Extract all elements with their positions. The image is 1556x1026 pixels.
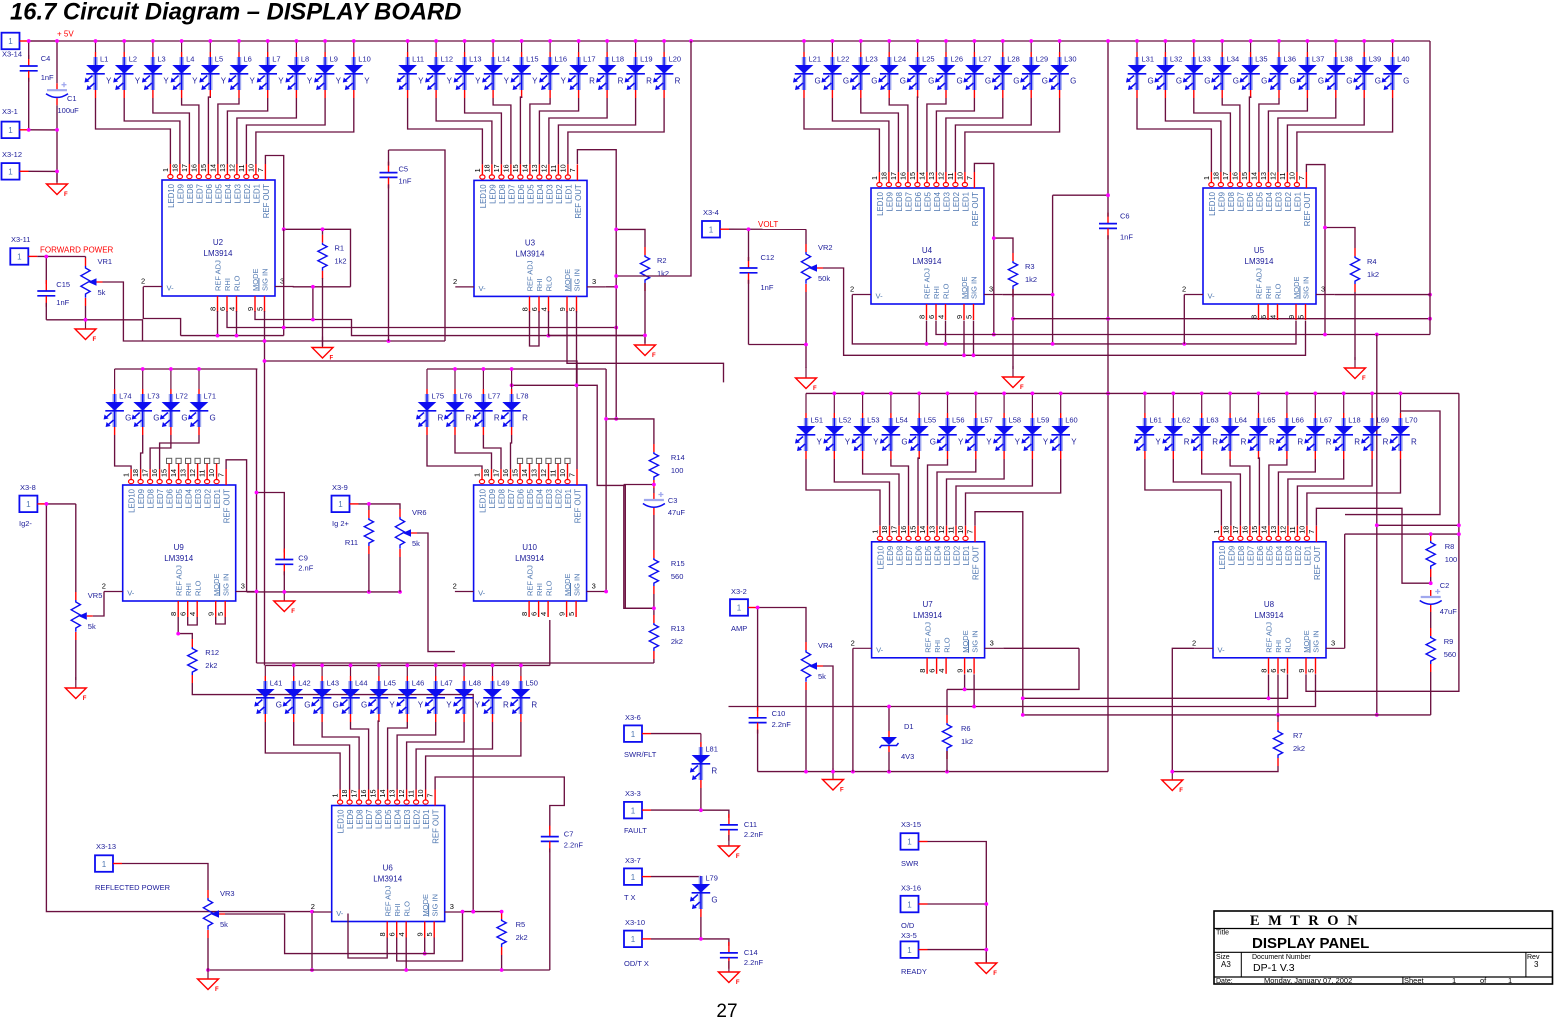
svg-text:RLO: RLO [544, 580, 553, 596]
wire L31 cathode to U5 pin [1137, 98, 1211, 172]
svg-text:6: 6 [1259, 315, 1268, 319]
svg-text:1nF: 1nF [761, 283, 774, 292]
svg-text:LED2: LED2 [413, 810, 422, 830]
svg-text:R: R [1241, 438, 1247, 447]
svg-text:R: R [1184, 438, 1190, 447]
svg-text:C6: C6 [1120, 212, 1130, 221]
resistor R9 560 [1426, 628, 1456, 672]
svg-text:27: 27 [716, 1001, 737, 1021]
svg-text:18: 18 [880, 172, 889, 180]
wire run y714.9 [1023, 714, 1431, 716]
svg-text:L76: L76 [460, 392, 473, 401]
capacitor C4 1nF [20, 54, 54, 82]
svg-text:L17: L17 [583, 55, 596, 64]
svg-text:DP-1 V.3: DP-1 V.3 [1253, 962, 1295, 974]
svg-text:R8: R8 [1445, 542, 1455, 551]
svg-text:G: G [930, 438, 936, 447]
LED L51 [795, 393, 823, 459]
capacitor C14 2.2nF [720, 942, 764, 969]
svg-text:LED10: LED10 [1218, 545, 1227, 570]
junction dots L79 node [699, 937, 703, 941]
svg-text:4: 4 [937, 669, 946, 673]
ground [823, 769, 845, 794]
wire C3 bottom [653, 515, 655, 550]
wire U5 V- down [1183, 295, 1185, 344]
ground [47, 173, 69, 198]
svg-text:L73: L73 [147, 392, 160, 401]
FAULT label [624, 826, 647, 835]
svg-text:4: 4 [1278, 669, 1287, 673]
svg-text:7: 7 [256, 168, 265, 172]
svg-text:Y: Y [986, 438, 992, 447]
wire L45 cathode to U6 pin [377, 721, 380, 790]
svg-text:2: 2 [1192, 638, 1196, 647]
svg-text:17: 17 [889, 172, 898, 180]
wire L50 cathode to U6 pin [426, 722, 521, 790]
wire X3-8 node [46, 503, 75, 505]
wire C6 bottom long vertical [1107, 235, 1109, 771]
svg-text:LED5: LED5 [526, 488, 535, 508]
svg-text:DISPLAY PANEL: DISPLAY PANEL [1252, 935, 1369, 952]
svg-text:C7: C7 [564, 830, 574, 839]
wire C15 drop [45, 257, 47, 285]
wire H1 R3 node line [1013, 318, 1430, 320]
svg-text:LED1: LED1 [961, 192, 970, 212]
wire U3 MODE down [567, 311, 724, 382]
svg-text:G: G [900, 77, 906, 86]
wire R14/C3 branch [624, 484, 654, 486]
svg-text:L50: L50 [525, 679, 538, 688]
svg-text:LED9: LED9 [1227, 546, 1236, 566]
svg-text:REF ADJ: REF ADJ [214, 260, 223, 291]
svg-text:LED7: LED7 [1236, 192, 1245, 212]
LED L49 [482, 664, 510, 723]
LED L27 [963, 39, 991, 98]
capacitor C9 2.nF [275, 549, 313, 576]
OD/T X label [624, 959, 649, 968]
svg-text:F: F [736, 980, 740, 986]
svg-text:VR2: VR2 [818, 243, 833, 252]
svg-text:16: 16 [359, 790, 368, 798]
svg-text:6: 6 [179, 612, 188, 616]
wire VR4 bottom [805, 690, 807, 772]
svg-text:R12: R12 [205, 648, 219, 657]
svg-text:Y: Y [221, 77, 227, 86]
svg-text:LED7: LED7 [365, 810, 374, 830]
wire C7 to rail [549, 848, 551, 970]
svg-text:LED8: LED8 [497, 489, 506, 509]
svg-text:7: 7 [966, 530, 975, 534]
LED L55 [908, 392, 936, 460]
wire L30 cathode to U4 pin [965, 98, 1060, 172]
svg-text:1: 1 [1212, 530, 1221, 534]
wire U5 pin3 line [1335, 294, 1430, 296]
svg-text:LED3: LED3 [233, 184, 242, 204]
svg-text:C5: C5 [399, 165, 409, 174]
wire +5V elbow right [1376, 335, 1378, 715]
svg-text:L44: L44 [355, 679, 368, 688]
svg-text:R14: R14 [671, 453, 685, 462]
svg-text:100uF: 100uF [58, 106, 80, 115]
svg-text:G: G [361, 701, 367, 710]
svg-text:RLO: RLO [545, 276, 554, 292]
svg-text:Y: Y [1071, 438, 1077, 447]
wire U2 MODE chain [255, 311, 645, 336]
svg-text:Y: Y [1043, 438, 1049, 447]
resistor R12 2k2 [188, 639, 219, 683]
svg-text:LED9: LED9 [885, 192, 894, 212]
svg-text:G: G [843, 77, 849, 86]
svg-text:G: G [1346, 77, 1352, 86]
svg-text:L77: L77 [488, 392, 501, 401]
svg-text:1: 1 [102, 860, 107, 869]
junction dots R12 [176, 632, 475, 914]
svg-text:LM3914: LM3914 [373, 875, 402, 884]
svg-text:Y: Y [561, 77, 567, 86]
X3-4 label [703, 208, 719, 217]
svg-text:5: 5 [1296, 315, 1305, 319]
svg-text:15: 15 [908, 172, 917, 180]
svg-text:4: 4 [397, 932, 406, 936]
capacitor C11 2.2nF [720, 814, 764, 841]
wire L81 bottom [700, 788, 702, 810]
LED L2 [113, 39, 141, 98]
wire bus to C1 [56, 41, 58, 83]
svg-text:L38: L38 [1340, 55, 1353, 64]
connector X3-1 [2, 122, 29, 139]
svg-text:11: 11 [549, 165, 558, 172]
svg-text:+ 5V: + 5V [57, 30, 74, 39]
svg-text:15: 15 [1250, 526, 1259, 534]
svg-text:LED6: LED6 [516, 489, 525, 509]
svg-text:LED4: LED4 [536, 184, 545, 204]
svg-text:1k2: 1k2 [335, 257, 347, 266]
LED L63 [1191, 392, 1219, 460]
svg-text:L63: L63 [1206, 416, 1219, 425]
svg-text:G: G [181, 414, 187, 423]
op-amp-style IC U6 LM3914 [311, 790, 464, 938]
svg-text:2.2nF: 2.2nF [564, 841, 584, 850]
svg-text:Y: Y [389, 701, 395, 710]
svg-text:5: 5 [567, 307, 576, 311]
wire R3 top line [994, 238, 1013, 253]
svg-text:8: 8 [520, 612, 529, 616]
svg-text:LED7: LED7 [507, 489, 516, 509]
LED L34 [1211, 39, 1239, 98]
wire L1 cathode to U2 pin [96, 98, 171, 164]
wire R8 bottom [1430, 577, 1432, 583]
svg-text:G: G [1204, 77, 1210, 86]
svg-text:L53: L53 [867, 416, 880, 425]
LED L73 [132, 367, 160, 435]
svg-text:LED3: LED3 [545, 184, 554, 204]
svg-text:16: 16 [899, 172, 908, 180]
svg-text:RLO: RLO [1274, 283, 1283, 299]
svg-text:L70: L70 [1405, 416, 1418, 425]
wire C12 top [748, 229, 750, 261]
LED L18 [596, 39, 624, 98]
LED L76 [444, 367, 472, 435]
LED L60 [1050, 392, 1078, 460]
ground [1162, 769, 1184, 794]
resistor R7 2k2 [1273, 722, 1305, 766]
wire L7 cathode to U2 pin [227, 98, 267, 164]
wire U7 MODE run [947, 648, 1079, 689]
LED L77 [472, 367, 500, 435]
resistor R1 1k2 [318, 235, 347, 279]
svg-text:X3-6: X3-6 [625, 713, 641, 722]
capacitor C3 47uF (polarized) [643, 492, 686, 517]
potentiometer VR4 5k [801, 641, 832, 690]
svg-text:LED1: LED1 [962, 546, 971, 566]
wire R8 top line [1345, 533, 1459, 535]
wire U6 bus feed drop2 [264, 361, 266, 665]
svg-text:X3-11: X3-11 [11, 235, 30, 244]
svg-text:L14: L14 [498, 55, 511, 64]
wire R2 top line [616, 229, 645, 247]
svg-text:6: 6 [388, 932, 397, 936]
svg-text:SIG IN: SIG IN [573, 269, 582, 292]
wire L10 cathode to U2 pin [256, 98, 354, 164]
svg-text:L43: L43 [327, 679, 340, 688]
svg-text:Y: Y [817, 438, 823, 447]
svg-text:Date:: Date: [1216, 978, 1233, 985]
svg-text:5: 5 [964, 315, 973, 319]
svg-text:LED5: LED5 [1265, 545, 1274, 565]
wire U8 REF OUT loop [1316, 508, 1430, 583]
wire L11 cathode to U3 pin [408, 98, 483, 164]
svg-text:LED1: LED1 [564, 184, 573, 204]
wire VR1 bottom [85, 306, 87, 320]
svg-text:15: 15 [511, 469, 520, 477]
junction dots U2 bottom band [216, 318, 618, 363]
svg-text:C15: C15 [56, 280, 70, 289]
svg-text:VR6: VR6 [412, 508, 427, 517]
svg-text:X3-13: X3-13 [96, 842, 116, 851]
svg-text:LED2: LED2 [1284, 192, 1293, 212]
svg-text:LED5: LED5 [384, 809, 393, 829]
ground [718, 835, 740, 860]
wire bus corner down right [1306, 393, 1459, 691]
LED L18 [1333, 392, 1361, 460]
wire L9 cathode to U2 pin [246, 98, 325, 164]
FORWARD POWER label [40, 246, 114, 255]
wire V- feed line y525 [1377, 524, 1459, 526]
LED L13 [454, 39, 482, 98]
page title [10, 0, 461, 26]
wire L21 cathode to U4 pin [804, 98, 879, 172]
svg-text:A3: A3 [1221, 960, 1231, 969]
svg-text:L57: L57 [980, 416, 993, 425]
wire VR5 bottom [75, 640, 77, 680]
svg-text:REF ADJ: REF ADJ [923, 268, 932, 299]
svg-text:R3: R3 [1025, 262, 1035, 271]
svg-text:L56: L56 [952, 416, 965, 425]
svg-text:LED7: LED7 [904, 192, 913, 212]
svg-text:13: 13 [928, 526, 937, 534]
junction dots VR1 area [44, 255, 87, 322]
svg-text:LED10: LED10 [876, 545, 885, 570]
svg-text:RLO: RLO [402, 901, 411, 917]
svg-text:12: 12 [1269, 172, 1278, 180]
wire L28 cathode to U4 pin [946, 98, 1003, 172]
connector X3-11 [10, 248, 37, 265]
svg-text:LED4: LED4 [394, 809, 403, 829]
LED L17 [568, 39, 596, 98]
svg-text:AMP: AMP [731, 624, 747, 633]
svg-text:8: 8 [208, 307, 217, 311]
svg-text:5k: 5k [412, 539, 420, 548]
svg-text:LED1: LED1 [213, 489, 222, 509]
svg-text:14: 14 [1250, 172, 1259, 180]
wire U9 anode bus [115, 368, 258, 370]
svg-text:5: 5 [425, 932, 434, 936]
svg-text:SIG IN: SIG IN [430, 894, 439, 917]
svg-text:16: 16 [150, 469, 159, 477]
svg-text:SWR: SWR [901, 859, 919, 868]
svg-text:1: 1 [870, 176, 879, 180]
svg-text:LED7: LED7 [195, 184, 204, 204]
svg-text:L30: L30 [1064, 55, 1077, 64]
svg-text:F: F [1179, 788, 1183, 794]
wire X3-7 to L79 [651, 876, 701, 878]
junction dots rail left [756, 606, 949, 774]
wire U2 RHI line [227, 311, 616, 328]
LED L56 [937, 392, 965, 460]
LED L5 [199, 39, 227, 98]
svg-text:F: F [1020, 385, 1024, 391]
ground [1345, 357, 1367, 382]
svg-text:G: G [1042, 77, 1048, 86]
capacitor C6 1nF [1099, 212, 1133, 242]
svg-text:14: 14 [169, 469, 178, 477]
wire C10 vertical upper [757, 608, 759, 711]
svg-text:4: 4 [539, 612, 548, 616]
title block EMTRON DISPLAY PANEL [1214, 911, 1553, 985]
svg-text:12: 12 [188, 469, 197, 477]
wire L74 cathode to U9 pin [115, 435, 132, 469]
svg-text:LED4: LED4 [224, 183, 233, 203]
svg-text:18: 18 [482, 469, 491, 477]
wire L66 cathode to U8 pin [1269, 459, 1287, 526]
wire U9 MODE jog [216, 617, 226, 624]
capacitor C7 2.2nF [541, 826, 584, 853]
svg-text:8: 8 [918, 669, 927, 673]
op-amp-style IC U3 LM3914 [453, 164, 606, 312]
svg-text:1: 1 [473, 168, 482, 172]
svg-text:Y: Y [873, 438, 879, 447]
X3-6 label [625, 713, 641, 722]
svg-text:R6: R6 [961, 724, 971, 733]
wire R11 top [368, 504, 370, 510]
svg-text:E M T R O N: E M T R O N [1250, 913, 1360, 929]
svg-text:REF OUT: REF OUT [1303, 192, 1312, 226]
svg-text:LED2: LED2 [952, 192, 961, 212]
svg-text:1: 1 [1508, 976, 1512, 985]
svg-text:10: 10 [1288, 172, 1297, 180]
resistor R15 560 [649, 550, 684, 594]
svg-text:15: 15 [199, 164, 208, 172]
capacitor C15 1nF [37, 280, 70, 307]
wire L16 cathode to U3 pin [530, 98, 550, 164]
resistor R6 1k2 [942, 715, 973, 759]
svg-text:1: 1 [631, 730, 636, 739]
svg-text:R9: R9 [1444, 637, 1454, 646]
svg-text:LED10: LED10 [876, 191, 885, 216]
svg-text:RLO: RLO [942, 637, 951, 653]
wire X3-8 long drop to U6 V- [46, 504, 312, 970]
wire R6 top [946, 689, 948, 715]
wire L54 cathode to U7 pin [891, 459, 909, 526]
svg-text:L62: L62 [1178, 416, 1191, 425]
svg-text:16: 16 [1241, 526, 1250, 534]
wire L41 cathode to U6 pin [265, 722, 340, 790]
capacitor C2 47uF (polarized) [1420, 581, 1458, 616]
X3-9 label [332, 483, 348, 492]
LED L48 [453, 664, 481, 723]
wire L8 cathode to U2 pin [237, 98, 297, 164]
X3-16 label [901, 884, 921, 893]
svg-text:5: 5 [255, 307, 264, 311]
connector X3-14 [2, 33, 29, 50]
svg-text:L18: L18 [612, 55, 625, 64]
LED L1 [85, 39, 113, 98]
LED L75 [416, 369, 444, 435]
wire L51 cathode to U7 pin [806, 459, 880, 526]
wire L64 cathode to U8 pin [1230, 459, 1250, 526]
svg-text:G: G [901, 438, 907, 447]
svg-text:7: 7 [1297, 176, 1306, 180]
resistor R4 1k2 [1350, 248, 1379, 292]
svg-text:X3-3: X3-3 [625, 789, 641, 798]
svg-text:G: G [1261, 77, 1267, 86]
LED L62 [1162, 392, 1190, 460]
svg-text:1: 1 [331, 794, 340, 798]
svg-text:LED2: LED2 [243, 184, 252, 204]
wire VR3 wiper to U6 SIGIN [225, 914, 434, 954]
svg-text:L24: L24 [894, 55, 907, 64]
svg-text:L25: L25 [922, 55, 935, 64]
LED L52 [823, 392, 851, 460]
svg-text:LED9: LED9 [137, 489, 146, 509]
svg-text:1: 1 [1202, 176, 1211, 180]
wire L2 cathode to U2 pin [124, 98, 180, 164]
svg-text:LED2: LED2 [554, 489, 563, 509]
svg-text:L26: L26 [951, 55, 964, 64]
REFLECTED POWER label [95, 883, 171, 892]
connector X3-3 [624, 802, 651, 819]
svg-text:R: R [1297, 438, 1303, 447]
svg-text:LED5: LED5 [923, 191, 932, 211]
svg-text:F: F [840, 788, 844, 794]
svg-text:LED5: LED5 [924, 545, 933, 565]
svg-text:LED2: LED2 [952, 546, 961, 566]
connector X3-16 [901, 896, 928, 913]
svg-text:Y: Y [278, 77, 284, 86]
svg-text:2k2: 2k2 [205, 661, 217, 670]
svg-text:X3-4: X3-4 [703, 208, 719, 217]
wire X3-4 to VR2 [729, 228, 806, 230]
svg-text:Y: Y [475, 701, 481, 710]
wire U3 REFADJ jog [530, 311, 540, 346]
svg-text:15: 15 [909, 526, 918, 534]
svg-text:2.nF: 2.nF [298, 564, 313, 573]
svg-text:L49: L49 [497, 679, 510, 688]
SWR/FLT label [624, 750, 657, 759]
svg-text:G: G [1233, 77, 1239, 86]
wire SIGIN run to U10 refout [265, 361, 578, 469]
LED L78 [501, 367, 529, 435]
